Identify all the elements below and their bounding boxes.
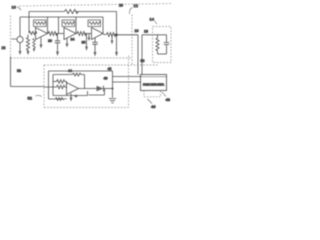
wire U2 output: [76, 33, 77, 35]
leader 46: [148, 99, 157, 109]
svg-text:50: 50: [141, 59, 145, 63]
amplifier box dashed left edge: [10, 16, 12, 59]
wire outer rail to plus input: [44, 86, 57, 88]
ground G1 bars: [109, 99, 116, 103]
resistor R10 feedback: [73, 73, 85, 76]
stage 2 input riser: [58, 17, 60, 34]
op-amp U4: [67, 83, 79, 95]
feedback rail wire: [29, 11, 65, 13]
resistor R2 shunt vertical: [26, 35, 29, 52]
svg-text:16: 16: [135, 29, 139, 33]
stage 3 input ground stub: [88, 34, 90, 38]
resistor R3 series: [48, 32, 57, 36]
node B dot: [112, 88, 114, 90]
ground arrow U2: [66, 44, 69, 48]
driver outer loop: [49, 71, 113, 99]
svg-text:42: 42: [108, 67, 112, 71]
U4 feedback riser: [84, 75, 86, 89]
wire R7 to node A: [114, 34, 117, 36]
node A junction dot: [115, 34, 118, 37]
op-amp U1: [36, 28, 48, 40]
resistor R9 on feedback rail: [65, 10, 79, 14]
resistor R7 series: [107, 33, 116, 37]
output box dashed right edge: [128, 56, 130, 108]
label 12 with curved leader: [129, 3, 138, 14]
stage 2 RC zigzag R4: [63, 22, 75, 25]
wire to damping network: [142, 34, 158, 36]
damping network top wire: [158, 34, 167, 36]
device boundary dashed top line: [20, 4, 172, 7]
resistor R2b plus network: [33, 39, 36, 49]
transducer block: [141, 75, 167, 91]
stage 3 feedback riser right: [102, 17, 104, 34]
svg-text:44: 44: [68, 69, 72, 73]
stage 3 RC box C5: [88, 20, 101, 27]
small zigzag on bottom wire: [56, 98, 63, 101]
wire feedback rail to node A: [76, 11, 117, 13]
op-amp U2: [64, 28, 76, 40]
ground arrow C7: [111, 41, 114, 45]
label 10: [12, 5, 22, 11]
wires to transducer: [113, 77, 141, 83]
stage 1 input node riser: [28, 12, 30, 34]
left feedback wire down: [11, 57, 45, 87]
microphone input vertical: [19, 17, 21, 37]
return wire right: [89, 89, 105, 95]
damping network dashed box: [153, 27, 172, 63]
svg-text:52: 52: [28, 96, 33, 101]
ground arrow node A: [115, 52, 118, 57]
U4 bias tick: [75, 95, 77, 97]
stage 1 RC box C1: [34, 20, 47, 27]
diode D1: [97, 86, 104, 92]
capacitor C2 shunt with ground: [55, 34, 60, 52]
U3 plus input capacitor C6 to ground: [92, 38, 97, 52]
svg-text:14: 14: [150, 17, 155, 22]
svg-text:12: 12: [134, 3, 139, 8]
resistor R5 series: [77, 32, 86, 36]
ground arrow R2: [27, 51, 30, 55]
stage 2 feedback riser right: [75, 17, 77, 34]
svg-text:26: 26: [119, 4, 123, 8]
capacitor C8 vertical: [164, 35, 170, 54]
ground arrow microphone: [19, 51, 22, 55]
svg-text:46: 46: [104, 77, 108, 81]
lower return wire: [53, 91, 88, 96]
node B vertical: [112, 71, 114, 98]
stage 1 RC zigzag R1: [35, 22, 47, 25]
wire diode to node B: [104, 88, 113, 90]
leader 48: [162, 92, 171, 102]
wire U4 output: [79, 88, 97, 90]
label 14: [150, 17, 158, 25]
svg-text:10: 10: [12, 5, 17, 10]
wire U1 output: [47, 33, 50, 35]
wire below microphone: [19, 43, 21, 51]
wire box edge to microphone: [12, 38, 17, 40]
microphone M1 circle: [17, 36, 23, 42]
svg-text:58: 58: [17, 69, 21, 73]
driver inner rail: [53, 75, 73, 96]
stage 2 RC box C3: [62, 20, 75, 27]
transducer feed verticals: [138, 35, 142, 75]
dashed sub box under transducer: [144, 91, 161, 97]
svg-text:18: 18: [144, 30, 148, 34]
damping network bottom wire: [158, 53, 167, 55]
ground arrow C6: [94, 52, 97, 57]
op-amp U3: [92, 28, 104, 40]
svg-text:22: 22: [2, 46, 6, 50]
svg-text:34: 34: [71, 38, 75, 42]
resistor R1a series input: [29, 31, 37, 34]
label 52: [28, 95, 42, 100]
stage 1 feedback riser right: [47, 17, 49, 34]
stage 3 RC zigzag R6: [89, 22, 101, 25]
ground arrow C2: [56, 52, 59, 57]
wire R3 to stage 2: [56, 33, 65, 35]
wire inner rail to minus input: [53, 81, 57, 83]
svg-text:46: 46: [151, 104, 156, 109]
ground arrow U1: [40, 45, 43, 49]
svg-text:36: 36: [82, 41, 86, 45]
output box dashed bottom edge: [44, 107, 129, 109]
transducer inner top line: [141, 76, 167, 78]
output box dashed left edge: [43, 65, 45, 108]
label 54 leader: [63, 99, 67, 100]
wire R5 to stage 3: [85, 33, 92, 35]
top rail wire: [20, 16, 103, 18]
U2 plus input ground wire: [66, 38, 68, 44]
svg-text:RECEIVER: RECEIVER: [143, 82, 165, 86]
amplifier box dashed right edge: [131, 15, 133, 65]
capacitor C4 shunt drop: [86, 34, 88, 47]
wire U3 output: [103, 33, 107, 36]
amplifier box dashed bottom edge: [11, 57, 133, 59]
resistor R12: [57, 85, 67, 89]
wire node A to transducer feed: [117, 34, 139, 36]
ground arrow U4: [70, 98, 73, 102]
resistor R11: [57, 80, 67, 86]
node A vertical wire: [116, 12, 118, 53]
svg-text:48: 48: [166, 97, 171, 102]
svg-text:30: 30: [48, 39, 52, 43]
output box dashed top edge: [44, 64, 158, 66]
capacitor C7 shunt with ground: [111, 35, 113, 41]
ground arrow stub: [88, 38, 91, 42]
U4 ground wire: [70, 93, 72, 97]
resistor R8 vertical: [156, 35, 159, 54]
U1 plus input ground wire: [40, 38, 42, 45]
